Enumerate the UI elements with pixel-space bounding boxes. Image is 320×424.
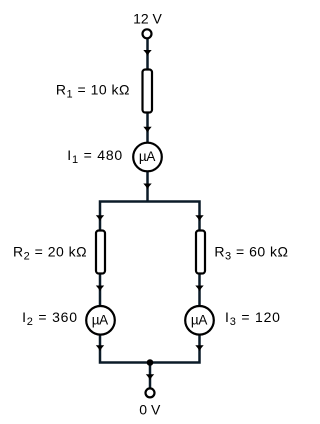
svg-text:0 V: 0 V bbox=[139, 401, 161, 417]
svg-text:12 V: 12 V bbox=[133, 11, 162, 27]
svg-text:µA: µA bbox=[92, 313, 108, 328]
svg-text:µA: µA bbox=[191, 313, 207, 328]
svg-text:µA: µA bbox=[139, 149, 155, 164]
